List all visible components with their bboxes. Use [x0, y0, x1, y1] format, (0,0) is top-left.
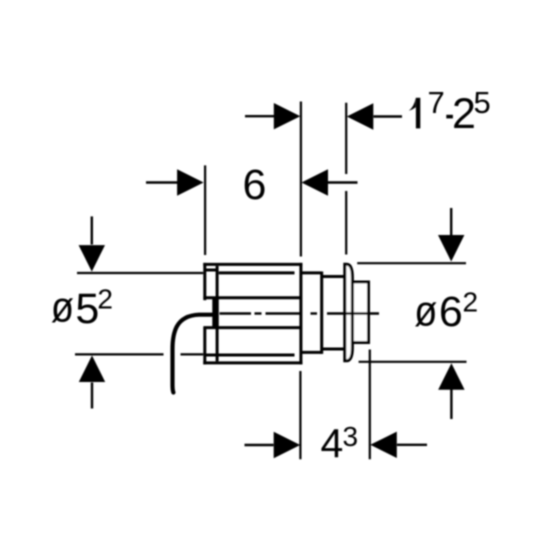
svg-text:2: 2 [463, 287, 479, 318]
svg-text:3: 3 [343, 421, 359, 452]
svg-text:2: 2 [452, 90, 476, 138]
svg-text:6: 6 [243, 161, 267, 209]
svg-text:5: 5 [75, 285, 99, 333]
svg-text:5: 5 [474, 85, 491, 120]
svg-text:6: 6 [439, 288, 463, 336]
svg-text:ø: ø [51, 282, 74, 331]
svg-text:ø: ø [414, 286, 437, 335]
svg-text:4: 4 [321, 421, 344, 467]
svg-text:7: 7 [428, 85, 445, 120]
svg-text:2: 2 [97, 283, 113, 314]
